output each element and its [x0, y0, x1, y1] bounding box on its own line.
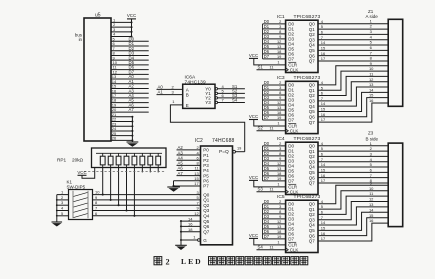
svg-text:Q0: Q0 — [309, 202, 316, 207]
svg-text:Q4: Q4 — [309, 104, 316, 109]
svg-text:14: 14 — [321, 40, 326, 45]
svg-text:Q5: Q5 — [309, 228, 316, 233]
switch K1 body — [69, 190, 93, 220]
svg-text:LED: LED — [181, 257, 203, 266]
svg-text:Q0: Q0 — [203, 192, 210, 197]
svg-text:TPIC6B273: TPIC6B273 — [294, 14, 321, 20]
svg-text:VCC: VCC — [249, 53, 258, 58]
svg-text:17: 17 — [194, 181, 199, 186]
svg-text:14: 14 — [369, 207, 374, 212]
RP1 resistor elements R1-R8 — [100, 156, 105, 165]
svg-text:11: 11 — [270, 245, 274, 250]
svg-text:CLK: CLK — [290, 248, 299, 253]
wires IC5 Q0-Q7 staircase to Z3 pins 9-16 — [318, 185, 388, 204]
svg-text:10: 10 — [369, 186, 374, 191]
svg-text:Q4: Q4 — [203, 214, 210, 219]
ground (IC2 G) — [175, 244, 187, 246]
svg-text:SW-DIP5: SW-DIP5 — [67, 184, 86, 189]
svg-text:14: 14 — [188, 216, 193, 221]
svg-text:14: 14 — [321, 101, 326, 106]
svg-text:Q1: Q1 — [309, 27, 316, 32]
svg-text:Q6: Q6 — [309, 53, 316, 58]
svg-text:16: 16 — [321, 173, 326, 178]
svg-text:1: 1 — [277, 182, 279, 187]
svg-text:D7: D7 — [264, 54, 270, 59]
svg-text:Q3: Q3 — [309, 99, 316, 104]
svg-text:Q7: Q7 — [203, 229, 210, 234]
net A0 to IC6A A (pin 2) — [157, 88, 183, 90]
driver IC1 body — [286, 20, 318, 72]
svg-text:Q4: Q4 — [309, 223, 316, 228]
svg-text:Q6: Q6 — [309, 233, 316, 238]
svg-text:16: 16 — [321, 231, 326, 236]
wires IC4 Q0-Q7 to Z3 pins 1-8 — [318, 145, 388, 147]
svg-text:15: 15 — [321, 167, 326, 172]
ground (K1) — [52, 221, 63, 223]
svg-text:1: 1 — [277, 60, 279, 65]
svg-text:Q0: Q0 — [309, 83, 316, 88]
wire VCC to IC1 CLR — [254, 58, 286, 65]
svg-text:TPIC6B273: TPIC6B273 — [294, 194, 321, 200]
svg-text:Q2: Q2 — [309, 93, 316, 98]
svg-text:Q3: Q3 — [309, 217, 316, 222]
svg-text:Q4: Q4 — [309, 165, 316, 170]
svg-text:VCC: VCC — [249, 114, 258, 119]
svg-text:16: 16 — [188, 222, 193, 227]
nets A2-A7 into IC2 P0-P5 — [177, 149, 201, 151]
svg-text:P=Q: P=Q — [219, 149, 229, 155]
svg-text:D7: D7 — [288, 237, 294, 242]
u5 pins 21-26 wires to ground bus — [111, 116, 132, 118]
svg-text:VCC: VCC — [249, 175, 258, 180]
driver IC3 body — [286, 81, 318, 133]
svg-text:13: 13 — [369, 82, 374, 87]
wire VCC to RP1 common — [82, 168, 95, 179]
svg-text:VCC: VCC — [249, 233, 258, 238]
net S2 to IC3 CLK — [257, 130, 286, 132]
ground (IC2 P6 P7) — [167, 186, 180, 188]
wires IC1 Q0-Q7 to Z1 pins 1-8 — [318, 23, 388, 25]
svg-text:Q6: Q6 — [309, 114, 316, 119]
svg-text:A7: A7 — [178, 171, 184, 176]
svg-text:Q4: Q4 — [309, 43, 316, 48]
svg-text:B: B — [186, 93, 189, 98]
svg-text:12: 12 — [369, 197, 374, 202]
svg-text:Q3: Q3 — [309, 159, 316, 164]
svg-text:Q0: Q0 — [309, 22, 316, 27]
svg-text:18: 18 — [188, 227, 193, 232]
svg-text:17: 17 — [321, 56, 326, 61]
net S3 to IC4 CLK — [257, 191, 286, 193]
K1 right pins 10-6, wires to IC2 Q0-Q4 — [93, 194, 201, 196]
IC u5 (bus driver, 26-pin) — [84, 18, 111, 141]
svg-text:1: 1 — [277, 121, 279, 126]
svg-text:D7: D7 — [264, 176, 270, 181]
svg-text:u5: u5 — [95, 13, 101, 19]
IC3 input ladder nets D0-D7 — [262, 85, 264, 120]
svg-text:13: 13 — [369, 202, 374, 207]
svg-text:A side: A side — [366, 14, 379, 19]
svg-text:RP1: RP1 — [57, 157, 67, 162]
svg-text:10: 10 — [95, 190, 100, 195]
svg-text:19: 19 — [277, 176, 281, 181]
svg-text:17: 17 — [321, 236, 326, 241]
svg-text:D7: D7 — [288, 57, 294, 62]
wire IC2 Q5-Q7 and G to ground — [181, 220, 201, 222]
svg-text:S1: S1 — [258, 65, 264, 70]
svg-text:Q1: Q1 — [309, 88, 316, 93]
svg-text:26: 26 — [112, 136, 117, 141]
svg-text:Q1: Q1 — [203, 198, 210, 203]
svg-text:20kΩ: 20kΩ — [72, 157, 84, 162]
driver IC5 body — [286, 200, 318, 252]
svg-text:19: 19 — [237, 145, 241, 150]
svg-text:19: 19 — [277, 54, 281, 59]
svg-text:VCC: VCC — [127, 13, 136, 18]
svg-text:19: 19 — [277, 234, 281, 239]
svg-text:S4: S4 — [232, 98, 238, 103]
svg-text:D7: D7 — [264, 234, 270, 239]
svg-text:S2: S2 — [258, 126, 264, 131]
svg-text:D7: D7 — [288, 179, 294, 184]
wire P=Q to 139 enable E — [170, 105, 244, 152]
resistor pack RP1 body — [92, 148, 167, 168]
connector Z1 body — [388, 19, 403, 106]
svg-text:15: 15 — [321, 225, 326, 230]
svg-text:Q5: Q5 — [203, 219, 210, 224]
svg-text:A7: A7 — [129, 107, 135, 112]
svg-text:15: 15 — [321, 45, 326, 50]
svg-text:17: 17 — [321, 117, 326, 122]
IC4 input ladder nets D0-D7 — [262, 146, 264, 181]
svg-text:19: 19 — [277, 115, 281, 120]
svg-text:15: 15 — [321, 107, 326, 112]
svg-text:CLK: CLK — [290, 129, 299, 134]
svg-text:E: E — [186, 103, 189, 108]
svg-text:11: 11 — [270, 65, 274, 70]
svg-text:Q6: Q6 — [309, 175, 316, 180]
svg-text:VCC: VCC — [77, 170, 86, 175]
svg-text:Q0: Q0 — [309, 144, 316, 149]
svg-text:TPIC6B273: TPIC6B273 — [294, 75, 321, 81]
svg-text:in: in — [79, 37, 83, 42]
svg-text:Q1: Q1 — [309, 149, 316, 154]
comparator IC2 body — [201, 146, 233, 245]
svg-text:Q5: Q5 — [309, 170, 316, 175]
svg-text:Q7: Q7 — [309, 239, 316, 244]
svg-text:Q3: Q3 — [203, 208, 210, 213]
wire VCC to IC4 CLR — [254, 180, 286, 187]
svg-text:12: 12 — [194, 211, 199, 216]
connector Z3 body — [388, 143, 403, 227]
svg-text:16: 16 — [321, 112, 326, 117]
svg-text:Q7: Q7 — [309, 120, 316, 125]
svg-text:D7: D7 — [264, 115, 270, 120]
svg-text:17: 17 — [321, 178, 326, 183]
crease artifact line — [84, 171, 166, 173]
svg-text:A1: A1 — [158, 90, 164, 95]
u5 address pins 13-20, nets A0-A7 — [111, 78, 149, 80]
ground (u5) — [127, 141, 139, 143]
svg-text:14: 14 — [321, 162, 326, 167]
wire P6,P7 to ground — [174, 180, 201, 182]
svg-text:74HC688: 74HC688 — [212, 138, 235, 144]
u5 data pins 5-12, nets D0-D7 — [111, 40, 149, 42]
wire VCC to IC3 CLR — [254, 120, 286, 127]
svg-text:Q6: Q6 — [203, 224, 210, 229]
svg-text:12: 12 — [369, 77, 374, 82]
caption 图2 LED 电子礼花树驱动电路原理图 — [154, 257, 162, 265]
svg-text:Z3: Z3 — [368, 131, 374, 136]
wire VCC to IC5 CLR — [254, 238, 286, 245]
svg-text:10: 10 — [369, 66, 374, 71]
IC1 input ladder nets D0-D7 — [262, 24, 264, 59]
svg-text:IC2: IC2 — [195, 138, 203, 144]
svg-text:Q2: Q2 — [309, 212, 316, 217]
svg-text:Q5: Q5 — [309, 109, 316, 114]
IC2 P=Q output pin 19 — [233, 150, 236, 153]
svg-text:G: G — [203, 238, 207, 243]
net S1 to IC1 CLK — [257, 69, 286, 71]
svg-text:16: 16 — [369, 218, 374, 223]
svg-text:P7: P7 — [203, 184, 209, 189]
K1 switch elements — [72, 191, 74, 219]
svg-text:15: 15 — [369, 213, 374, 218]
net A1 to IC6A B (pin 3) — [157, 94, 183, 96]
svg-text:S3: S3 — [258, 187, 264, 192]
svg-text:16: 16 — [369, 98, 374, 103]
svg-text:S4: S4 — [258, 245, 264, 250]
svg-text:Q7: Q7 — [309, 181, 316, 186]
svg-text:Q2: Q2 — [203, 203, 210, 208]
svg-text:Y3: Y3 — [205, 100, 211, 105]
svg-text:Q3: Q3 — [309, 37, 316, 42]
svg-text:CLK: CLK — [290, 68, 299, 73]
decoder IC6A body — [183, 84, 215, 108]
svg-text:2: 2 — [166, 258, 170, 267]
driver IC4 body — [286, 142, 318, 194]
RP1 common rail — [96, 152, 162, 154]
IC5 input ladder nets D0-D7 — [262, 204, 264, 239]
net S4 to IC5 CLK — [257, 249, 286, 251]
svg-text:Q2: Q2 — [309, 154, 316, 159]
svg-text:Q5: Q5 — [309, 48, 316, 53]
svg-text:15: 15 — [369, 93, 374, 98]
svg-text:11: 11 — [270, 187, 274, 192]
svg-text:11: 11 — [270, 126, 274, 131]
wires IC3 Q0-Q7 staircase to Z1 pins 9-16 — [318, 66, 388, 85]
svg-text:CLK: CLK — [290, 190, 299, 195]
RP1 lead wires down to switch rows — [102, 168, 104, 195]
svg-text:1: 1 — [277, 240, 279, 245]
svg-text:14: 14 — [321, 220, 326, 225]
svg-text:Q2: Q2 — [309, 32, 316, 37]
svg-text:14: 14 — [369, 87, 374, 92]
svg-text:Q1: Q1 — [309, 207, 316, 212]
u5 pins 1-4 wires to VCC rail — [111, 21, 132, 23]
svg-text:16: 16 — [321, 51, 326, 56]
svg-text:B side: B side — [366, 137, 379, 142]
svg-text:D7: D7 — [288, 118, 294, 123]
svg-text:TPIC6B273: TPIC6B273 — [294, 136, 321, 142]
svg-text:Q7: Q7 — [309, 59, 316, 64]
K1 left pins 1-5 to ground — [57, 194, 69, 196]
